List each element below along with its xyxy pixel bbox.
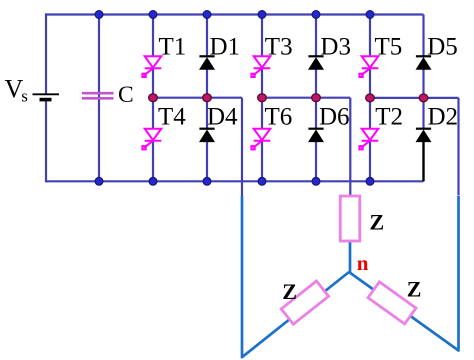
- thyristor T3: [251, 56, 270, 77]
- node: bottom bus junction at T4: [149, 177, 157, 185]
- wire: leg3 thyristor column: [369, 15, 371, 182]
- svg-text:Z: Z: [282, 279, 297, 304]
- node: leg3 midpoint at D5: [419, 94, 428, 102]
- wire: leg3 diode column upper: [422, 15, 424, 130]
- wire: bottom DC bus: [46, 180, 424, 182]
- svg-text:Z: Z: [370, 210, 385, 235]
- node: top bus junction at C: [95, 11, 103, 19]
- thyristor T5: [359, 56, 378, 77]
- thyristor T2: [359, 129, 378, 150]
- wire: leg2 midpoint link to phase B: [262, 97, 350, 99]
- wire: leg2 thyristor column: [261, 15, 263, 182]
- wire: left source branch upper: [45, 13, 47, 94]
- wire: top DC bus: [46, 13, 424, 15]
- capacitor C plates: [82, 93, 114, 98]
- svg-text:D6: D6: [319, 103, 350, 130]
- thyristor T6: [251, 129, 270, 150]
- node: bottom bus junction at C: [95, 177, 103, 185]
- wire: leg1 thyristor column: [152, 15, 154, 182]
- wire: leg1 diode column: [206, 15, 208, 182]
- node: top bus junction at T3: [258, 11, 266, 19]
- diode D4: [199, 129, 215, 142]
- node: bottom bus junction at T2: [366, 177, 374, 185]
- node: leg2 midpoint at D3: [312, 94, 321, 102]
- diode D3: [308, 56, 324, 69]
- battery Vs short plate: [40, 98, 52, 102]
- svg-text:D4: D4: [207, 103, 238, 130]
- node: top bus junction at D3: [312, 11, 320, 19]
- impedance Z phase C (slanted): [368, 282, 416, 324]
- wire: capacitor branch: [98, 15, 100, 182]
- svg-text:D3: D3: [320, 33, 351, 60]
- node: bottom bus junction at D4: [203, 177, 211, 185]
- impedance Z phase A (slanted): [281, 281, 328, 324]
- impedance Z phase B (vertical): [340, 196, 360, 241]
- svg-text:T4: T4: [158, 103, 186, 130]
- node: bottom bus junction at D6: [312, 177, 320, 185]
- node: leg1 midpoint at D1: [203, 94, 212, 102]
- wire: leg3 midpoint link to phase C: [370, 97, 459, 99]
- thyristor T1: [142, 56, 161, 77]
- wire: phase B load lead to neutral: [349, 240, 352, 272]
- diode D6: [308, 129, 324, 142]
- svg-text:D5: D5: [427, 33, 458, 60]
- node: top bus junction at T1: [149, 11, 157, 19]
- svg-text:n: n: [357, 251, 369, 275]
- svg-text:D1: D1: [210, 33, 241, 60]
- node: leg2 midpoint at T3: [258, 94, 267, 102]
- node: top bus junction at D1: [203, 11, 211, 19]
- diode D1: [199, 56, 215, 69]
- battery Vs long plate: [33, 93, 60, 95]
- node: leg3 midpoint at T5: [366, 94, 375, 102]
- svg-text:C: C: [118, 82, 134, 108]
- wire: left source branch lower: [45, 100, 47, 183]
- wire: phase C load lead (bright): [349, 196, 459, 351]
- thyristor T4: [142, 129, 161, 150]
- wire: phase A drop (dark): [241, 98, 243, 196]
- wire: phase C drop (dark): [457, 98, 459, 196]
- svg-text:T1: T1: [159, 33, 187, 60]
- wire: phase A load lead (bright): [242, 196, 349, 357]
- svg-text:T2: T2: [375, 103, 403, 130]
- node: leg1 midpoint at T1: [149, 94, 158, 102]
- svg-text:D2: D2: [428, 103, 459, 130]
- node: top bus junction at T5: [366, 11, 374, 19]
- diode D5: [416, 56, 432, 69]
- wire: leg1 midpoint link to phase A: [153, 97, 242, 99]
- svg-text:T6: T6: [265, 103, 293, 130]
- diode D2: [416, 129, 432, 142]
- wire: D2 lower lead (black): [422, 142, 424, 182]
- wire: phase B drop (dark): [349, 98, 351, 197]
- node: bottom bus junction at T6: [258, 177, 266, 185]
- svg-text:T5: T5: [375, 33, 403, 60]
- svg-text:T3: T3: [265, 33, 293, 60]
- wire: leg2 diode column: [315, 15, 317, 182]
- svg-text:Z: Z: [407, 277, 422, 302]
